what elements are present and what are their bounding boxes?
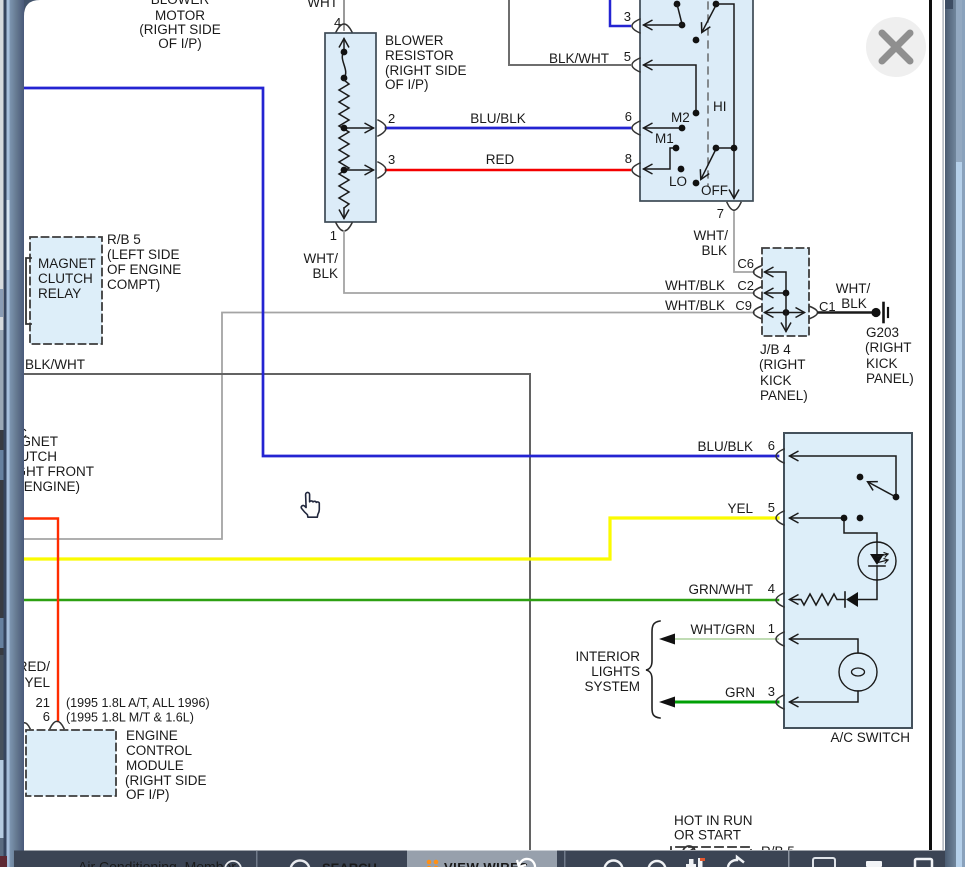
- svg-text:GRN: GRN: [725, 685, 755, 700]
- svg-text:(LEFT SIDE: (LEFT SIDE: [107, 247, 180, 262]
- pin 6 internal arrow: [644, 127, 682, 129]
- svg-text:WHT/GRN: WHT/GRN: [691, 622, 756, 637]
- wire RED resistor pin 3 to switch pin 8: [386, 169, 630, 172]
- node dot C9: [783, 309, 790, 316]
- svg-text:OF ENGINE: OF ENGINE: [107, 262, 181, 277]
- svg-text:R/B 5: R/B 5: [107, 232, 141, 247]
- wire WHT/BLK from resistor pin 1 to J/B4 C2: [344, 231, 754, 293]
- svg-text:5: 5: [768, 500, 775, 515]
- M1 contact dot: [673, 145, 680, 152]
- svg-text:ENGINE: ENGINE: [126, 728, 178, 743]
- dashed link line: [707, 2, 709, 186]
- svg-text:6: 6: [625, 109, 632, 124]
- label J/B 4: [759, 342, 808, 403]
- connector bump pin 1: [776, 632, 784, 646]
- connector bump pin 1: [336, 223, 352, 231]
- blower resistor R1 box: [325, 33, 376, 222]
- svg-text:BLK/WHT: BLK/WHT: [549, 51, 609, 66]
- node dot: [841, 515, 848, 522]
- wire YEL to A/C switch pin 5: [24, 518, 778, 559]
- node dot: [341, 49, 348, 56]
- svg-text:WHT/: WHT/: [694, 228, 729, 243]
- label INTERIOR LIGHTS SYSTEM: [575, 649, 640, 694]
- resistor internals: arrow up: [343, 39, 345, 52]
- svg-text:21: 21: [36, 695, 50, 710]
- svg-text:KICK: KICK: [760, 373, 792, 388]
- svg-text:M1: M1: [655, 131, 674, 146]
- svg-text:HI: HI: [713, 99, 727, 114]
- wire WHT/BLK long run to J/B4 C9: [24, 313, 754, 540]
- HI feed dot: [713, 1, 720, 8]
- svg-text:MOTOR: MOTOR: [155, 8, 205, 23]
- C6 internal line: [765, 272, 786, 290]
- wire BLK/WHT dark run: [24, 374, 530, 850]
- wire BLK/WHT to blower switch pin 5: [509, 0, 630, 65]
- resistor R2 zigzag: [799, 594, 845, 605]
- wire WHT/BLK to ground: [819, 311, 872, 314]
- svg-text:5: 5: [624, 49, 631, 64]
- wire to right rail: [716, 4, 734, 198]
- connector bump pin 7: [727, 203, 741, 211]
- connector bump pin 8: [632, 163, 640, 177]
- wiper arrow: [868, 482, 894, 496]
- svg-text:WHT/: WHT/: [304, 251, 339, 266]
- connector bump ECM pin: [50, 721, 64, 728]
- label ENGINE CONTROL MODULE: [125, 728, 207, 802]
- svg-text:WHT/BLK: WHT/BLK: [665, 278, 725, 293]
- svg-text:BLOWER: BLOWER: [151, 0, 210, 7]
- svg-text:OF I/P): OF I/P): [158, 36, 202, 51]
- C2 internal arrow: [765, 292, 786, 294]
- label HOT IN RUN OR START: [674, 813, 753, 843]
- connector bump pin 6: [776, 449, 784, 463]
- wire GRN interior lights: [672, 701, 778, 704]
- svg-text:3: 3: [388, 152, 395, 167]
- relay bracket: [26, 258, 31, 324]
- svg-text:A/C SWITCH: A/C SWITCH: [831, 730, 911, 745]
- svg-text:WHT/: WHT/: [836, 281, 871, 296]
- blower switch S1 box: [640, 0, 753, 201]
- label R/B 5: [107, 232, 181, 292]
- svg-text:BLK: BLK: [841, 296, 867, 311]
- pin 3 arrow: [644, 24, 682, 26]
- LED indicator circle: [858, 542, 896, 580]
- svg-text:M2: M2: [671, 110, 690, 125]
- svg-text:YEL: YEL: [727, 501, 753, 516]
- svg-text:RED: RED: [486, 152, 515, 167]
- svg-text:KICK: KICK: [866, 356, 898, 371]
- svg-text:7: 7: [717, 206, 724, 221]
- M2 contact dot: [679, 125, 686, 132]
- svg-text:(RIGHT SIDE: (RIGHT SIDE: [139, 22, 221, 37]
- connector bump pin 3: [776, 695, 784, 709]
- connector bump pin 5: [632, 58, 640, 72]
- svg-text:SYSTEM: SYSTEM: [584, 679, 640, 694]
- svg-text:HOT IN RUN: HOT IN RUN: [674, 813, 753, 828]
- node dot C2: [783, 290, 790, 297]
- wire WHT/BLK from pin 7 to J/B4 C6: [734, 212, 754, 272]
- wire BLU/BLK resistor pin 2 to switch pin 6: [386, 127, 630, 130]
- svg-text:(RIGHT SIDE: (RIGHT SIDE: [125, 773, 207, 788]
- connector bump ECM left pin (cut): [19, 723, 30, 729]
- wire WHT to blower resistor pin 4: [343, 0, 345, 30]
- svg-text:6: 6: [43, 709, 50, 724]
- bulb filament loop: [852, 668, 865, 676]
- svg-text:INTERIOR: INTERIOR: [575, 649, 640, 664]
- connector bump C1: [810, 307, 818, 319]
- rail node dot: [731, 145, 738, 152]
- HI contact dot: [693, 37, 700, 44]
- wire: [677, 4, 682, 24]
- J/B 4 junction block box: [762, 248, 809, 336]
- OFF contact dot: [693, 180, 700, 187]
- connector bump pin 2: [378, 120, 386, 136]
- resistor zigzag element: [339, 80, 349, 208]
- right background strip: [943, 0, 965, 867]
- arrow GRN: [659, 697, 675, 708]
- label MAGNET CLUTCH RELAY: [38, 256, 96, 301]
- LED symbol: [869, 542, 888, 580]
- pin 1 internal line: [790, 639, 858, 653]
- connector bump pin 3: [378, 162, 386, 178]
- pin 4 internal arrow: [790, 599, 799, 601]
- engine control module box: [26, 730, 116, 796]
- svg-text:(1995 1.8L M/T & 1.6L): (1995 1.8L M/T & 1.6L): [66, 711, 194, 725]
- label BLOWER RESISTOR: [385, 33, 467, 92]
- svg-text:WHT: WHT: [307, 0, 338, 10]
- connector bump pin 4: [776, 593, 784, 607]
- diode D1: [845, 592, 858, 607]
- label BLOWER MOTOR: [139, 0, 221, 51]
- svg-text:OF I/P): OF I/P): [126, 787, 170, 802]
- left background strip (page behind modal): [0, 0, 40, 867]
- svg-text:MODULE: MODULE: [126, 758, 184, 773]
- svg-text:PANEL): PANEL): [760, 388, 808, 403]
- A/C switch U1 box: [784, 433, 912, 728]
- M2 feed dot: [693, 110, 700, 117]
- tap arrow to pin 3: [344, 169, 373, 171]
- connector bump pin 3: [632, 19, 640, 33]
- svg-text:1: 1: [768, 621, 775, 636]
- svg-text:RELAY: RELAY: [38, 286, 81, 301]
- svg-text:OR START: OR START: [674, 828, 741, 843]
- wire LED to resistor row: [858, 580, 877, 600]
- wire GRN/WHT to A/C switch pin 4: [24, 599, 778, 602]
- brace interior lights system: [646, 621, 660, 718]
- connector bump pin 6: [632, 121, 640, 135]
- svg-text:MAGNET: MAGNET: [38, 256, 96, 271]
- svg-text:Air Conditioning Member: Air Conditioning Member: [78, 859, 236, 868]
- node dot tap 3: [341, 167, 348, 174]
- thermal fuse squiggle: [342, 52, 345, 78]
- svg-text:BLU/BLK: BLU/BLK: [697, 439, 753, 454]
- svg-text:C9: C9: [735, 298, 752, 313]
- magnet clutch relay box: [30, 237, 102, 344]
- svg-text:GRN/WHT: GRN/WHT: [689, 582, 754, 597]
- node pin3 contact: [679, 22, 686, 29]
- black border of diagram image: [929, 0, 932, 850]
- svg-text:G203: G203: [866, 325, 899, 340]
- svg-text:(1995 1.8L A/T, ALL 1996): (1995 1.8L A/T, ALL 1996): [66, 696, 210, 710]
- wire WHT/GRN interior lights: [672, 638, 778, 640]
- svg-text:LO: LO: [669, 174, 687, 189]
- close button: [866, 17, 926, 77]
- wire pivot to rail: [716, 147, 734, 149]
- svg-text:WHT/BLK: WHT/BLK: [665, 298, 725, 313]
- wire BLU to blower switch pin 3: [610, 0, 630, 26]
- svg-text:(RIGHT: (RIGHT: [759, 357, 806, 372]
- bottom navigation bar: [14, 851, 945, 872]
- wire BLU/BLK main run to A/C switch pin 6: [24, 88, 778, 456]
- mouse cursor (hand pointer): [301, 492, 319, 517]
- svg-text:BLK: BLK: [312, 266, 338, 281]
- svg-text:2: 2: [388, 111, 395, 126]
- connector bump C9: [754, 307, 762, 319]
- pin 5 internal arrow and line: [644, 65, 696, 112]
- LO contact dot: [678, 166, 685, 173]
- arrow WHT/GRN: [659, 634, 675, 645]
- svg-text:CLUTCH: CLUTCH: [38, 271, 93, 286]
- svg-text:BLK/WHT: BLK/WHT: [25, 357, 85, 372]
- OFF wiper pivot dot: [713, 145, 720, 152]
- svg-text:8: 8: [625, 151, 632, 166]
- svg-text:J/B 4: J/B 4: [760, 342, 791, 357]
- HI wiper arrow: [702, 7, 715, 32]
- svg-text:3: 3: [624, 9, 631, 24]
- internal vertical link: [785, 293, 787, 331]
- node dot tap 2: [341, 125, 348, 132]
- svg-text:C6: C6: [737, 256, 754, 271]
- contact dot: [857, 515, 864, 522]
- label G203: [865, 325, 914, 386]
- fixed contact dot: [857, 474, 864, 481]
- svg-text:(RIGHT: (RIGHT: [865, 340, 912, 355]
- arrow down to pin 1: [343, 208, 345, 218]
- C9 internal line: [765, 312, 786, 314]
- svg-text:6: 6: [768, 438, 775, 453]
- switch wiper dot: [893, 494, 900, 501]
- wire RED/YEL to ECM: [24, 519, 58, 722]
- connector bump C6: [754, 266, 762, 278]
- svg-text:OFF: OFF: [701, 183, 728, 198]
- connector bump pin 5: [776, 511, 784, 525]
- bulb lamp: [839, 653, 877, 691]
- ground G203 symbol: [871, 303, 888, 322]
- pin 3 internal line: [790, 691, 858, 702]
- svg-text:COMPT): COMPT): [107, 277, 160, 292]
- pin 6 internal line: [790, 456, 896, 494]
- pin 8 internal elbow: [644, 148, 673, 169]
- label MAGNET CLUTCH (cut at edge): [0, 434, 94, 494]
- OFF wiper arrow: [701, 151, 715, 179]
- svg-text:3: 3: [768, 684, 775, 699]
- svg-text:BLU/BLK: BLU/BLK: [470, 111, 526, 126]
- node dot: [341, 75, 348, 82]
- svg-text:C2: C2: [737, 278, 754, 293]
- svg-text:BLK: BLK: [701, 243, 727, 258]
- svg-text:YEL: YEL: [24, 675, 50, 690]
- svg-text:4: 4: [768, 581, 775, 596]
- pin 5 internal line: [790, 518, 877, 542]
- svg-text:RESISTOR: RESISTOR: [385, 48, 454, 63]
- svg-text:CONTROL: CONTROL: [126, 743, 192, 758]
- svg-text:(RIGHT SIDE: (RIGHT SIDE: [385, 63, 467, 78]
- svg-text:SEARCH: SEARCH: [322, 861, 377, 868]
- connector bump pin 4: [336, 24, 352, 32]
- fuse box fragment R/B 5: [671, 846, 751, 858]
- svg-text:LIGHTS: LIGHTS: [591, 664, 640, 679]
- svg-text:1: 1: [330, 228, 337, 243]
- svg-text:VIEW WIRES: VIEW WIRES: [444, 860, 528, 867]
- switch contact dots top: [674, 1, 681, 8]
- svg-text:PANEL): PANEL): [866, 371, 914, 386]
- tap arrow to pin 2: [344, 127, 373, 129]
- connector bump C2: [754, 287, 762, 299]
- svg-text:OF I/P): OF I/P): [385, 77, 429, 92]
- svg-text:BLOWER: BLOWER: [385, 33, 444, 48]
